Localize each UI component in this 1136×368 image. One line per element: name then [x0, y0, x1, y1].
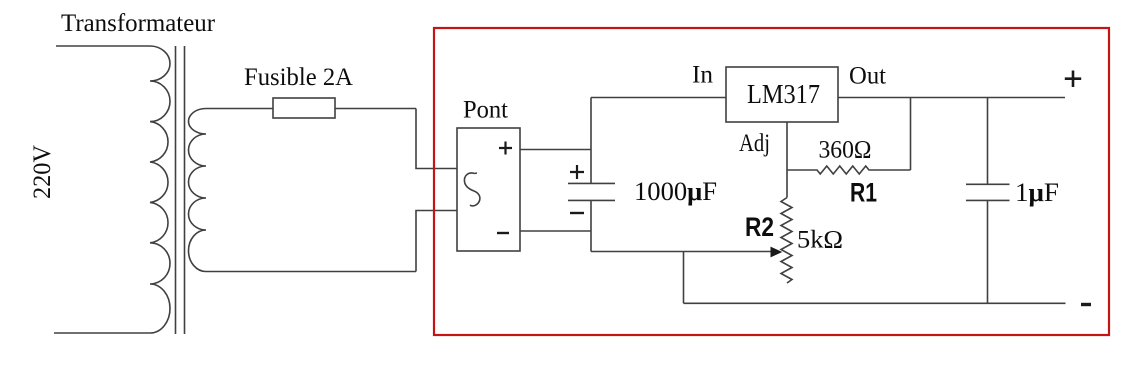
bridge AC squiggle symbol [464, 173, 479, 206]
svg-text:1μF: 1μF [1015, 178, 1059, 207]
output minus terminal [1081, 303, 1091, 306]
svg-text:In: In [692, 62, 714, 89]
wire riser from bridge outputs to In rail and cap C1 [590, 98, 592, 184]
wire Adj pin [786, 122, 788, 198]
transformer T1 primary winding [54, 46, 170, 333]
wire In rail [591, 97, 726, 99]
red boundary box of regulator section [434, 28, 1109, 335]
capacitor C1 1000uF bottom plate [568, 199, 615, 201]
wire secondary bottom to bridge lower [416, 211, 457, 272]
transformer T1 core line left [175, 46, 177, 334]
potentiometer R2 vertical zigzag [781, 198, 792, 284]
wire R1 right leg from Out rail [910, 98, 912, 171]
bridge rectifier body [457, 128, 520, 251]
svg-text:Pont: Pont [463, 97, 508, 124]
bridge plus sign [499, 142, 512, 155]
capacitor C2 1uF bottom plate [966, 199, 1010, 201]
svg-text:R2: R2 [745, 212, 774, 242]
svg-text:1000μF: 1000μF [634, 177, 717, 206]
resistor R1 zigzag [787, 166, 911, 174]
svg-text:220V: 220V [29, 145, 56, 199]
capacitor C2 1uF lower lead [987, 200, 989, 303]
output plus terminal [1065, 71, 1081, 88]
R2 wiper arrowhead [771, 247, 783, 258]
fuse F1 body [273, 98, 335, 118]
transformer T1 secondary winding [189, 109, 416, 272]
wire bottom rail to minus terminal [684, 302, 1066, 304]
svg-text:5kΩ: 5kΩ [797, 227, 843, 254]
svg-text:Adj: Adj [739, 130, 770, 157]
wire bridge minus output [520, 230, 591, 232]
wire Out rail to plus terminal [838, 97, 1065, 99]
capacitor C2 1uF upper lead [987, 98, 989, 185]
transformer T1 core line right [184, 46, 186, 334]
wire riser lower segment [590, 200, 592, 251]
regulator U1 LM317 body [726, 67, 838, 122]
svg-text:R1: R1 [850, 178, 877, 208]
capacitor C1 1000uF top plate [568, 182, 615, 184]
wire secondary top to bridge upper [416, 109, 457, 169]
bridge minus sign [497, 232, 509, 234]
capacitor C1 minus sign [570, 212, 584, 214]
svg-text:Fusible 2A: Fusible 2A [244, 64, 353, 91]
capacitor C2 1uF top plate [966, 183, 1010, 185]
svg-text:Out: Out [849, 63, 886, 90]
capacitor C1 plus sign [570, 165, 584, 179]
svg-text:LM317: LM317 [747, 79, 820, 109]
wire wiper rail from riser to R2 arrow [591, 251, 771, 253]
svg-text:360Ω: 360Ω [819, 137, 872, 164]
wire bridge plus output [520, 149, 591, 151]
wire drop from wiper rail to bottom rail [683, 252, 685, 304]
svg-text:Transformateur: Transformateur [61, 10, 216, 37]
